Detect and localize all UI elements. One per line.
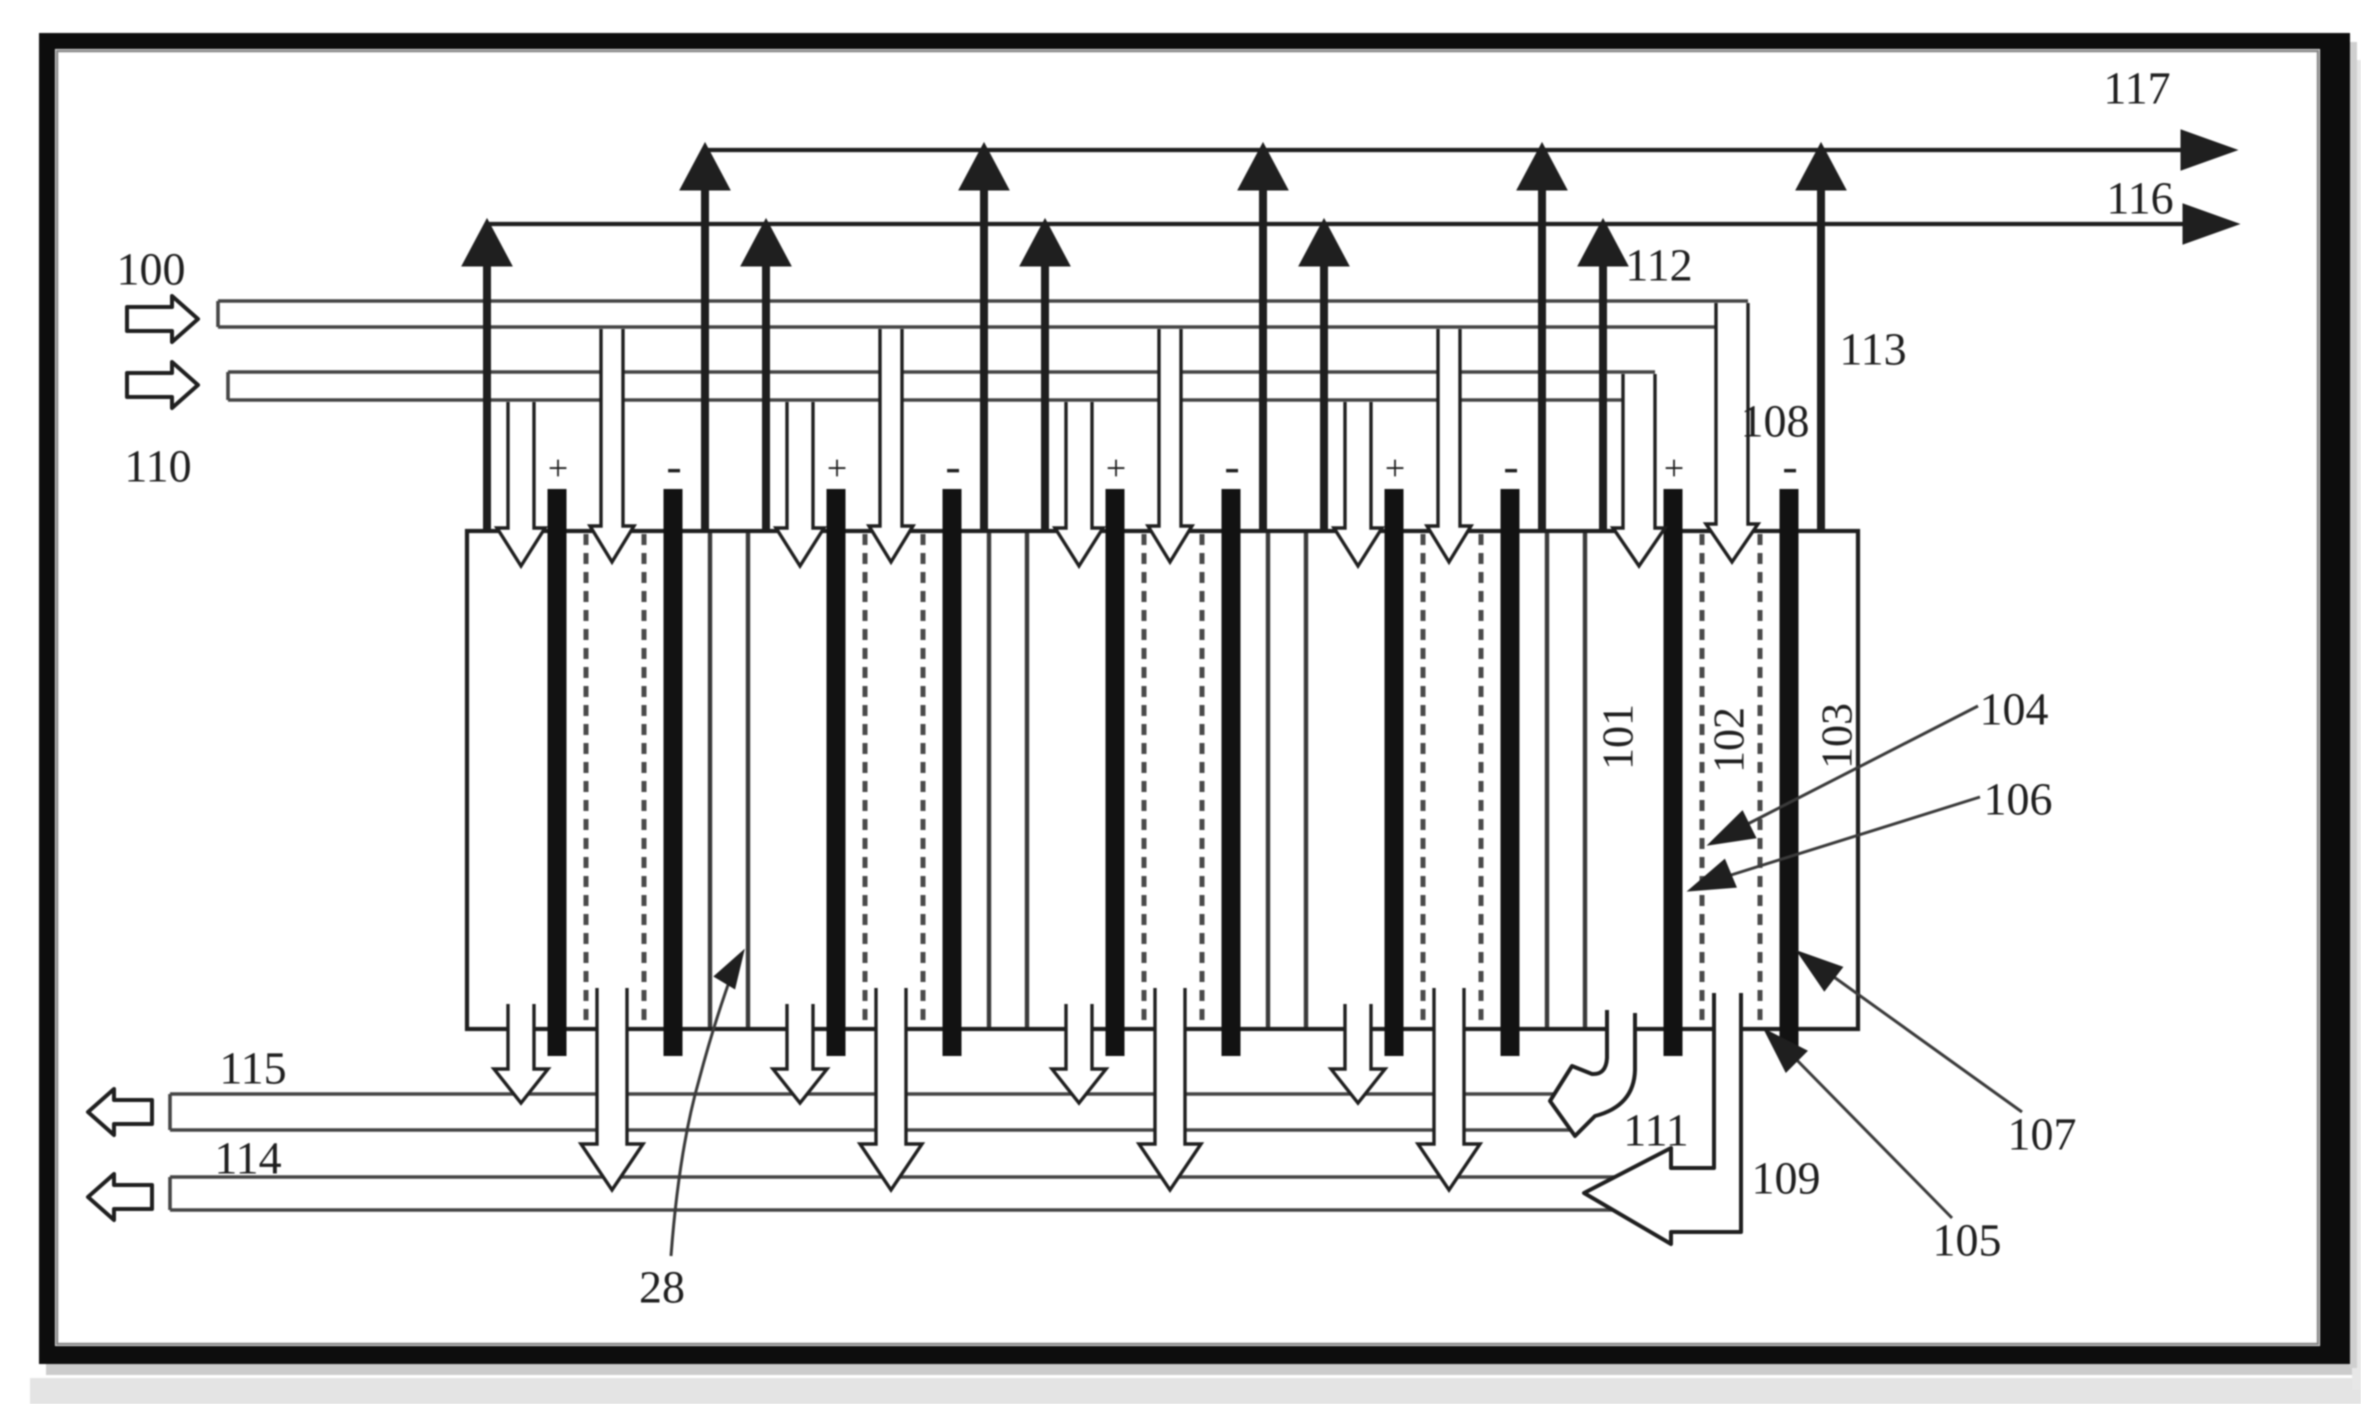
svg-text:-: -: [666, 441, 681, 492]
cell 1 membrane dashed lines: [584, 534, 589, 1027]
outlet long arrow to 114, cell 2: [860, 988, 922, 1190]
negative electrode bar cell 2: [943, 489, 962, 1056]
outlet long arrow to 114, cell 3: [1139, 988, 1201, 1190]
gas arrow to 117, cell 4: [1538, 182, 1546, 531]
gas arrow to 116, cell 3: [1041, 258, 1049, 531]
feed drop from 110, cell 1: [497, 402, 545, 566]
svg-text:116: 116: [2106, 173, 2173, 224]
pipe 110 (lower inlet manifold): [228, 370, 1655, 374]
negative electrode bar cell 1: [664, 489, 683, 1056]
svg-text:-: -: [1782, 441, 1797, 492]
svg-text:103: 103: [1813, 703, 1862, 769]
outlet short arrow to 115, cell 3: [1052, 1004, 1106, 1103]
outlet arrow 114: [88, 1174, 152, 1220]
gas arrow to 116, cell 1: [483, 258, 491, 531]
svg-text:111: 111: [1623, 1105, 1689, 1156]
pointer 28: [671, 963, 736, 1256]
feed drop from 100, cell 5: [1706, 303, 1758, 562]
feed drop from 110, cell 3: [1055, 402, 1103, 566]
negative electrode bar cell 3: [1222, 489, 1241, 1056]
svg-text:101: 101: [1594, 704, 1643, 770]
negative electrode bar cell 5: [1780, 489, 1799, 1056]
pipe 115 (upper outlet manifold): [170, 1092, 1568, 1096]
positive electrode bar cell 1: [548, 489, 567, 1056]
gas arrow to 117, cell 2: [980, 182, 988, 531]
svg-text:117: 117: [2103, 63, 2170, 114]
cell 3 membrane dashed lines: [1142, 534, 1147, 1027]
feed drop from 110, cell 5: [1613, 374, 1665, 566]
outlet short arrow to 115, cell 4: [1331, 1004, 1385, 1103]
cell 5 membrane dashed lines: [1700, 534, 1705, 1027]
svg-text:-: -: [1503, 441, 1518, 492]
cell separator wall lines 3: [1266, 533, 1270, 1027]
pointer 106: [1712, 797, 1980, 881]
negative electrode bar cell 4: [1501, 489, 1520, 1056]
feed drop from 100, cell 2: [869, 329, 913, 562]
positive electrode bar cell 5: [1664, 489, 1683, 1056]
svg-text:109: 109: [1752, 1153, 1821, 1204]
pipe 114 (lower outlet manifold): [170, 1175, 1656, 1179]
feed drop from 110, cell 4: [1334, 402, 1382, 566]
inlet arrow 110: [127, 362, 198, 408]
positive electrode bar cell 3: [1106, 489, 1125, 1056]
cell separator wall lines 4: [1545, 533, 1549, 1027]
svg-text:100: 100: [117, 244, 186, 295]
svg-text:+: +: [1106, 448, 1126, 488]
cell 4 membrane dashed lines: [1421, 534, 1426, 1027]
cell separator wall lines 2: [987, 533, 991, 1027]
cell separator wall lines 1: [708, 533, 712, 1027]
svg-text:107: 107: [2008, 1109, 2077, 1160]
svg-text:102: 102: [1705, 707, 1754, 773]
curved outlet arrow 111: [1550, 1010, 1635, 1136]
svg-text:110: 110: [124, 441, 191, 492]
bent outlet arrow 109: [1584, 993, 1741, 1244]
svg-text:+: +: [1664, 448, 1684, 488]
svg-text:+: +: [548, 448, 568, 488]
svg-text:113: 113: [1839, 324, 1906, 375]
svg-text:115: 115: [219, 1043, 286, 1094]
stack vessel 28 outline: [467, 531, 1858, 1029]
outlet long arrow to 114, cell 1: [581, 988, 643, 1190]
gas arrow to 116, cell 4: [1320, 258, 1328, 531]
frame: [39, 33, 55, 1364]
inlet arrow 100: [127, 296, 198, 342]
outlet long arrow to 114, cell 4: [1418, 988, 1480, 1190]
positive electrode bar cell 2: [827, 489, 846, 1056]
feed drop from 100, cell 4: [1427, 329, 1471, 562]
cell 2 membrane dashed lines: [863, 534, 868, 1027]
svg-text:+: +: [1385, 448, 1405, 488]
feed drop from 100, cell 3: [1148, 329, 1192, 562]
gas arrow to 117, cell 3: [1259, 182, 1267, 531]
line 116 (second product header): [487, 222, 2188, 226]
gas arrow to 116, cell 2: [762, 258, 770, 531]
outlet arrow 115: [88, 1089, 152, 1135]
svg-text:-: -: [945, 441, 960, 492]
outlet short arrow to 115, cell 2: [773, 1004, 827, 1103]
gas arrow to 117, cell 1: [701, 182, 709, 531]
gas arrow to 117, cell 5: [1817, 182, 1825, 531]
svg-text:114: 114: [214, 1133, 281, 1184]
feed drop from 110, cell 2: [776, 402, 824, 566]
svg-text:112: 112: [1625, 240, 1692, 291]
line 117 (top product header): [705, 148, 2186, 152]
svg-text:+: +: [827, 448, 847, 488]
gas arrow to 116, cell 5: [1599, 258, 1607, 531]
svg-text:104: 104: [1980, 684, 2049, 735]
svg-text:28: 28: [639, 1262, 685, 1313]
outlet short arrow to 115, cell 1: [494, 1004, 548, 1103]
svg-text:108: 108: [1741, 396, 1810, 447]
pipe 100 (upper inlet manifold): [218, 299, 1748, 303]
svg-text:106: 106: [1984, 774, 2053, 825]
svg-text:-: -: [1224, 441, 1239, 492]
pointer 104: [1732, 706, 1978, 832]
svg-text:105: 105: [1933, 1215, 2002, 1266]
pointer 107: [1820, 967, 2022, 1112]
feed drop from 100, cell 1: [590, 329, 634, 562]
pointer 105: [1786, 1049, 1952, 1218]
positive electrode bar cell 4: [1385, 489, 1404, 1056]
